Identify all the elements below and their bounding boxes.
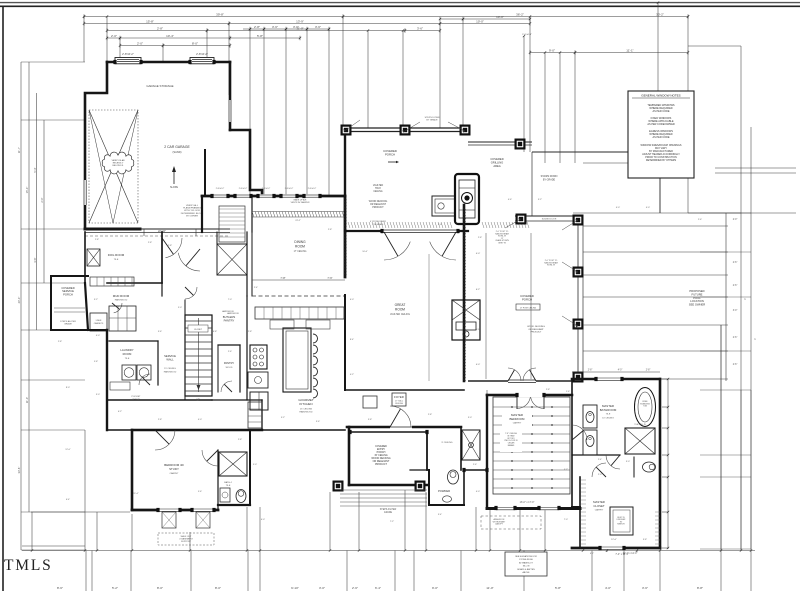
svg-text:2'-0"x6'-8": 2'-0"x6'-8" [522, 34, 532, 36]
svg-text:12'-0": 12'-0" [611, 539, 617, 541]
svg-text:9'-0": 9'-0" [432, 586, 438, 590]
svg-text:4'-0": 4'-0" [476, 253, 481, 255]
svg-text:3'-6": 3'-6" [316, 421, 320, 423]
svg-text:5'-2": 5'-2" [564, 469, 568, 471]
svg-text:4'-0": 4'-0" [605, 586, 611, 590]
svg-text:9' CEILING: 9' CEILING [442, 442, 453, 444]
svg-text:(SAND): (SAND) [173, 150, 182, 154]
svg-text:2'-6": 2'-6" [352, 586, 358, 590]
svg-text:ROWL W: ROWL W [547, 265, 555, 267]
svg-text:UP: UP [196, 399, 200, 402]
svg-text:BATH 4: BATH 4 [224, 481, 232, 484]
svg-text:ROOM: ROOM [123, 352, 132, 356]
svg-text:13'-9": 13'-9" [296, 19, 304, 23]
svg-text:2'-8": 2'-8" [428, 414, 432, 416]
svg-text:12'-0": 12'-0" [65, 449, 71, 451]
svg-text:3'-8": 3'-8" [368, 419, 372, 421]
svg-text:CLOSET: CLOSET [194, 329, 203, 331]
svg-text:5'-4": 5'-4" [33, 167, 37, 172]
svg-text:7'-2": 7'-2" [390, 521, 394, 523]
svg-text:5'-0": 5'-0" [253, 464, 257, 466]
svg-text:6'-2": 6'-2" [590, 553, 594, 555]
svg-text:10'-6": 10'-6" [362, 251, 368, 253]
svg-text:GRADE: GRADE [384, 511, 393, 514]
svg-text:2'-8"x6'-2": 2'-8"x6'-2" [308, 188, 317, 190]
svg-text:COVERED: COVERED [490, 157, 503, 161]
svg-text:2'-6": 2'-6" [733, 337, 738, 339]
svg-text:OFFICE: OFFICE [132, 399, 141, 401]
svg-text:3'-6": 3'-6" [417, 26, 423, 30]
svg-text:15'-0": 15'-0" [25, 187, 29, 194]
svg-text:2'-8": 2'-8" [248, 331, 252, 333]
svg-text:GREY W: GREY W [498, 243, 506, 245]
svg-text:2'-8"x6'-2": 2'-8"x6'-2" [216, 188, 225, 190]
svg-text:2 CAR GARAGE: 2 CAR GARAGE [164, 145, 190, 149]
svg-text:5'-6": 5'-6" [198, 491, 202, 493]
svg-text:3'-0": 3'-0" [96, 394, 100, 396]
svg-text:POCKET: POCKET [132, 396, 142, 398]
svg-text:2'-0": 2'-0" [733, 219, 738, 221]
svg-text:SLIDING DOOR: SLIDING DOOR [542, 219, 557, 221]
svg-text:KITCHEN: KITCHEN [299, 402, 312, 406]
svg-text:CARPET: CARPET [170, 472, 180, 475]
svg-text:4'-0": 4'-0" [616, 207, 620, 209]
svg-text:6'-0": 6'-0" [261, 519, 265, 521]
svg-text:30'-2": 30'-2" [656, 12, 664, 16]
svg-text:2'-8": 2'-8" [58, 341, 62, 343]
svg-text:3'-8": 3'-8" [643, 539, 647, 541]
svg-text:11'-0": 11'-0" [25, 397, 29, 403]
svg-text:4'-0": 4'-0" [198, 419, 202, 421]
svg-text:3'-6": 3'-6" [642, 586, 648, 590]
svg-text:3'-6": 3'-6" [158, 331, 162, 333]
svg-text:2'-8": 2'-8" [254, 25, 260, 29]
svg-text:9'-0": 9'-0" [549, 48, 555, 52]
svg-text:16'-0" x 17'-0": 16'-0" x 17'-0" [520, 501, 535, 504]
svg-text:CABINETS: CABINETS [94, 322, 104, 325]
svg-text:6'-4": 6'-4" [375, 586, 381, 590]
svg-text:CARPET: CARPET [513, 422, 522, 425]
svg-text:8'-0": 8'-0" [157, 586, 163, 590]
svg-text:TILE: TILE [606, 414, 611, 416]
svg-text:PRODUCT: PRODUCT [375, 463, 387, 466]
svg-text:2'-6": 2'-6" [228, 351, 232, 353]
svg-text:BATHROOM: BATHROOM [600, 408, 617, 412]
svg-text:4'-0": 4'-0" [476, 364, 481, 366]
svg-text:7'-8": 7'-8" [280, 276, 285, 280]
svg-text:3'-0": 3'-0" [438, 224, 442, 226]
svg-text:BELOW F.F.: BELOW F.F. [113, 165, 124, 167]
svg-text:TRAY: TRAY [375, 187, 381, 190]
svg-text:CANOPY: CANOPY [495, 523, 504, 526]
svg-text:20'-0": 20'-0" [17, 297, 21, 304]
svg-text:2'-8"x6'-2": 2'-8"x6'-2" [122, 52, 134, 56]
svg-text:17' CEILING: 17' CEILING [294, 251, 307, 253]
svg-text:11'-1": 11'-1" [626, 48, 633, 52]
svg-text:4'-6": 4'-6" [508, 199, 512, 201]
svg-text:LINEN: LINEN [96, 320, 102, 322]
svg-text:2'-8"x6'-2": 2'-8"x6'-2" [262, 188, 271, 190]
svg-text:PROPOSED: PROPOSED [689, 289, 704, 293]
svg-text:2'-8": 2'-8" [157, 26, 163, 30]
svg-text:VAULTED CEILING: VAULTED CEILING [390, 313, 410, 316]
svg-text:PRODUCT: PRODUCT [372, 207, 384, 209]
svg-text:SLOPE: SLOPE [170, 186, 178, 189]
svg-text:3'-2": 3'-2" [538, 199, 542, 201]
svg-text:7'-0": 7'-0" [228, 299, 232, 301]
svg-text:2'-8"x6'-2": 2'-8"x6'-2" [196, 52, 208, 56]
svg-text:MUD ROOM: MUD ROOM [113, 294, 130, 298]
svg-text:8'-0": 8'-0" [66, 387, 70, 389]
svg-text:MIRROR: MIRROR [617, 524, 625, 526]
svg-text:2'-0": 2'-0" [598, 474, 602, 476]
svg-text:STEPS AS PER: STEPS AS PER [380, 508, 397, 511]
svg-text:4'-0": 4'-0" [96, 335, 100, 337]
svg-text:BEDROOM: BEDROOM [510, 417, 526, 421]
svg-text:OR RELEVANT: OR RELEVANT [370, 203, 387, 206]
svg-text:SEE OWNER: SEE OWNER [689, 303, 705, 307]
svg-text:3'-6": 3'-6" [293, 25, 299, 29]
svg-text:9'-10": 9'-10" [291, 586, 299, 590]
svg-text:1'-6": 1'-6" [566, 391, 570, 393]
svg-text:POWDER: POWDER [438, 489, 450, 493]
svg-text:AS PER CODE: AS PER CODE [652, 136, 669, 139]
svg-text:10'-0": 10'-0" [476, 19, 484, 23]
svg-text:PRODUCT: PRODUCT [531, 332, 542, 334]
svg-text:VERIFY ALL: VERIFY ALL [186, 204, 199, 207]
svg-text:STONE /EDGE: STONE /EDGE [519, 559, 533, 561]
svg-text:2'-8": 2'-8" [238, 439, 242, 441]
svg-text:ROOM: ROOM [295, 245, 305, 249]
svg-text:2'-0": 2'-0" [111, 34, 117, 38]
svg-text:2'-8": 2'-8" [646, 370, 651, 372]
svg-text:PORCH: PORCH [385, 153, 395, 157]
svg-text:2'-8": 2'-8" [588, 370, 593, 372]
svg-text:3'-4": 3'-4" [438, 514, 442, 516]
svg-text:3'-0": 3'-0" [733, 310, 738, 312]
svg-text:CARPET: CARPET [595, 509, 604, 512]
svg-text:HARDWOOD: HARDWOOD [299, 411, 313, 414]
svg-text:2'-0": 2'-0" [40, 197, 44, 202]
svg-text:11'-0": 11'-0" [486, 586, 493, 590]
svg-text:8'-0": 8'-0" [192, 41, 198, 45]
svg-text:BUTLERS: BUTLERS [223, 315, 236, 319]
svg-text:BOARD & BATTEN: BOARD & BATTEN [517, 568, 535, 571]
svg-text:8'-4": 8'-4" [350, 339, 354, 341]
svg-text:2'-8": 2'-8" [148, 242, 152, 244]
svg-text:GREAT: GREAT [395, 303, 406, 307]
svg-text:PORCH: PORCH [63, 292, 73, 296]
svg-text:HARDWOOD: HARDWOOD [115, 299, 128, 302]
svg-text:4'-0": 4'-0" [646, 207, 650, 209]
svg-text:WOOD: WOOD [226, 367, 233, 369]
svg-text:9'-2": 9'-2" [281, 417, 285, 419]
svg-text:39'-8": 39'-8" [216, 12, 224, 16]
svg-text:4'-2": 4'-2" [350, 374, 354, 376]
svg-text:SERVICE: SERVICE [164, 354, 176, 358]
svg-text:4'-0": 4'-0" [618, 370, 623, 372]
svg-text:2'-8"x6'-2": 2'-8"x6'-2" [285, 188, 294, 190]
svg-text:TILE WALL IN: TILE WALL IN [634, 423, 646, 426]
svg-text:PORCH: PORCH [522, 298, 532, 302]
svg-text:TILE: TILE [114, 259, 119, 261]
svg-text:7'-0": 7'-0" [564, 519, 568, 521]
svg-text:6'-2": 6'-2" [118, 411, 122, 413]
svg-text:AREA: AREA [493, 164, 501, 168]
svg-text:4'-0": 4'-0" [476, 491, 480, 493]
svg-text:AT WAINSCOT: AT WAINSCOT [519, 561, 533, 564]
svg-text:GARAGE STORAGE: GARAGE STORAGE [146, 84, 173, 88]
svg-text:2'-4": 2'-4" [254, 287, 258, 289]
svg-text:TILE: TILE [226, 485, 231, 487]
svg-text:15' CEILING: 15' CEILING [300, 409, 313, 411]
svg-text:2'-8": 2'-8" [158, 419, 162, 421]
svg-text:2'-6": 2'-6" [698, 219, 702, 221]
svg-text:3'-0": 3'-0" [626, 461, 630, 463]
svg-text:2'-8": 2'-8" [168, 245, 172, 247]
svg-text:DOG ROOM: DOG ROOM [108, 253, 125, 257]
svg-text:STUDY: STUDY [169, 467, 179, 471]
svg-text:SEE ELEVATIONS FOR: SEE ELEVATIONS FOR [515, 555, 537, 558]
svg-text:2'-6": 2'-6" [733, 285, 738, 287]
svg-text:3'-6": 3'-6" [272, 25, 278, 29]
svg-text:CEILING: CEILING [395, 403, 404, 405]
svg-text:BY OWNER: BY OWNER [186, 215, 198, 217]
svg-text:TMLS: TMLS [4, 557, 53, 574]
svg-text:8'-0": 8'-0" [215, 586, 221, 590]
svg-text:5'-8": 5'-8" [94, 361, 98, 363]
svg-text:6'-2": 6'-2" [476, 329, 481, 331]
svg-text:6'-8": 6'-8" [213, 331, 217, 333]
svg-text:12'-4" x 12'-0": 12'-4" x 12'-0" [623, 552, 638, 555]
svg-text:3'-2": 3'-2" [94, 299, 98, 301]
svg-text:PANTRY: PANTRY [224, 361, 235, 365]
svg-text:STEPS AS PER: STEPS AS PER [60, 320, 76, 323]
svg-text:74'-2": 74'-2" [295, 220, 301, 222]
svg-text:AS PER CODE/OWNER: AS PER CODE/OWNER [647, 123, 675, 126]
svg-text:2'-6": 2'-6" [733, 364, 738, 366]
svg-text:DINING: DINING [294, 240, 306, 244]
svg-text:BEAMS: BEAMS [508, 444, 515, 447]
svg-text:ROOM: ROOM [395, 308, 405, 312]
svg-text:SILL IN: SILL IN [523, 566, 530, 568]
svg-text:AS PER CODE: AS PER CODE [652, 110, 669, 113]
svg-text:33'-6": 33'-6" [17, 467, 21, 474]
svg-text:CEILING: CEILING [373, 191, 382, 193]
svg-text:11'-7": 11'-7" [17, 147, 21, 153]
svg-text:2'-8"x6'-2": 2'-8"x6'-2" [239, 188, 248, 190]
svg-text:WALL: WALL [166, 358, 174, 362]
svg-text:BY GRADE: BY GRADE [426, 119, 438, 122]
svg-text:POOL: POOL [693, 296, 701, 300]
svg-text:2'-0": 2'-0" [137, 41, 143, 45]
svg-text:6'-2": 6'-2" [476, 289, 481, 291]
svg-text:CLOSET: CLOSET [593, 504, 604, 508]
svg-text:SUPPORT: SUPPORT [181, 541, 192, 543]
svg-text:GENERAL WINDOW NOTES: GENERAL WINDOW NOTES [641, 94, 680, 98]
svg-text:2'-8": 2'-8" [328, 229, 332, 231]
svg-text:2'-4": 2'-4" [598, 459, 602, 461]
svg-text:5'-0": 5'-0" [178, 307, 182, 309]
svg-text:FOYER: FOYER [394, 395, 404, 399]
svg-text:WOOD DECKING: WOOD DECKING [527, 326, 545, 328]
svg-text:VAULTED: VAULTED [373, 184, 384, 187]
svg-text:PANTRY: PANTRY [224, 319, 235, 323]
svg-text:LOCATION: LOCATION [690, 299, 704, 303]
svg-text:2'-8": 2'-8" [478, 237, 482, 239]
svg-text:5'-8": 5'-8" [555, 586, 561, 590]
svg-text:11'-4": 11'-4" [133, 493, 138, 495]
svg-text:3'-0": 3'-0" [319, 586, 325, 590]
svg-text:36'-2": 36'-2" [516, 12, 524, 16]
svg-text:3'-6": 3'-6" [315, 25, 321, 29]
svg-text:6'-0": 6'-0" [350, 299, 354, 301]
svg-text:2'-8": 2'-8" [546, 389, 550, 391]
svg-text:10'-4": 10'-4" [166, 34, 174, 38]
svg-text:ABOVE: ABOVE [523, 571, 531, 574]
svg-text:8'-8": 8'-8" [697, 586, 703, 590]
svg-text:7'-6": 7'-6" [327, 276, 332, 280]
svg-text:FUTURE: FUTURE [692, 292, 703, 296]
svg-text:GRADE: GRADE [64, 323, 72, 326]
svg-text:2'-6": 2'-6" [733, 262, 738, 264]
svg-text:15' CEILING: 15' CEILING [164, 368, 176, 370]
svg-text:VENTS W/ DAMPER: VENTS W/ DAMPER [291, 201, 310, 204]
svg-text:HARDWOOD: HARDWOOD [164, 371, 177, 374]
svg-text:PLANS/FRAMING: PLANS/FRAMING [183, 207, 201, 210]
svg-text:8'-6": 8'-6" [57, 586, 63, 590]
svg-text:3'-0": 3'-0" [468, 417, 472, 419]
svg-text:6'-4": 6'-4" [66, 499, 70, 501]
svg-text:17' POST CEILING: 17' POST CEILING [520, 308, 537, 310]
svg-text:10'-0": 10'-0" [496, 15, 504, 19]
svg-text:2'-8": 2'-8" [95, 239, 99, 241]
svg-text:15'-8": 15'-8" [146, 19, 154, 23]
svg-text:10' CEILING: 10' CEILING [602, 418, 614, 420]
svg-text:3'-6": 3'-6" [33, 257, 37, 262]
svg-text:2'-6": 2'-6" [473, 464, 477, 466]
svg-text:BY GRADE: BY GRADE [543, 179, 556, 182]
svg-text:5'-2": 5'-2" [112, 586, 118, 590]
svg-text:5'-8": 5'-8" [257, 34, 263, 38]
svg-text:WOOD DECKING: WOOD DECKING [369, 201, 388, 203]
svg-text:HARDWOOD: HARDWOOD [227, 312, 240, 315]
svg-text:DETERMINED BY OTHERS: DETERMINED BY OTHERS [646, 159, 677, 162]
svg-text:TILE: TILE [125, 358, 130, 360]
svg-text:GRILLING: GRILLING [491, 161, 504, 165]
